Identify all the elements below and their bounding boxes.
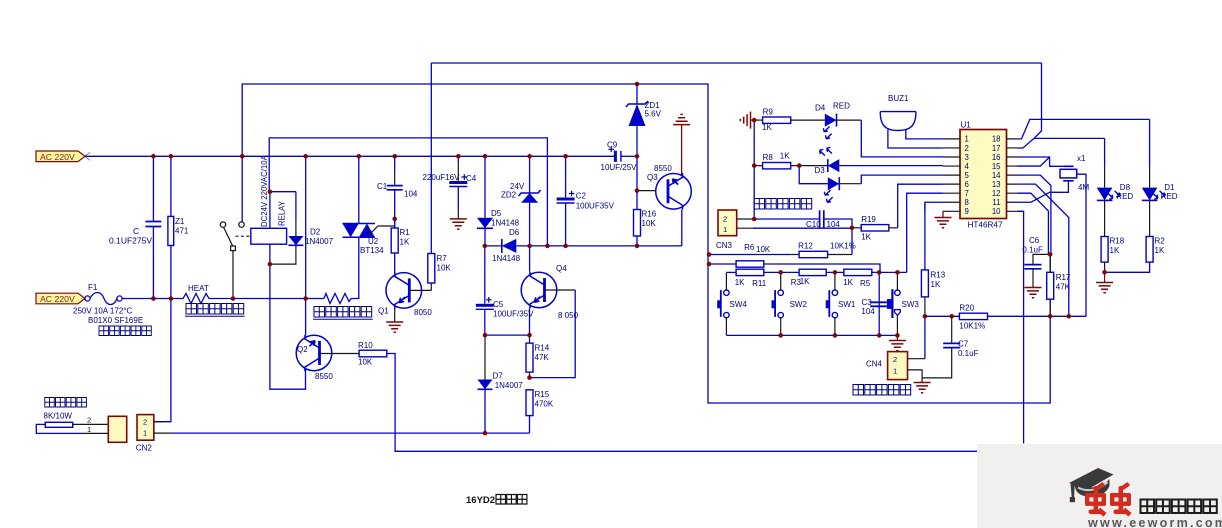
transistor Q2 8550 [296, 335, 332, 371]
svg-text:D1: D1 [1164, 183, 1175, 192]
svg-text:CN3: CN3 [716, 241, 733, 250]
wire heater to triac U2 [351, 237, 359, 298]
svg-text:C: C [133, 226, 139, 236]
svg-text:C7: C7 [958, 340, 969, 349]
svg-text:18: 18 [992, 135, 1001, 144]
svg-text:D8: D8 [1120, 183, 1131, 192]
svg-text:RED: RED [833, 102, 850, 111]
diode D6 1N4148 [502, 239, 517, 253]
wire U1 pin7 to rail C [907, 193, 943, 272]
svg-text:8: 8 [965, 198, 969, 207]
resistor R17 47K [1049, 254, 1051, 272]
watermark graduation cap [1069, 468, 1114, 502]
LED D3 (dual) upper [828, 159, 840, 172]
wire ZD1 node [636, 156, 638, 190]
svg-text:R9: R9 [763, 108, 774, 117]
resistor R6 10K [736, 261, 764, 267]
wire CN3 pin1 row [737, 227, 753, 229]
svg-text:D3: D3 [815, 166, 826, 175]
svg-text:CN4: CN4 [866, 360, 883, 369]
buzzer BUZ1 [880, 111, 916, 113]
svg-text:5: 5 [965, 171, 970, 180]
wire CN4 pin2 riser [908, 358, 925, 360]
svg-text:R19: R19 [861, 215, 876, 224]
svg-text:10K1%: 10K1% [959, 322, 985, 331]
wire top loop corner to pin18 net [1034, 63, 1042, 138]
net label AC 220V (bottom) [36, 293, 85, 304]
svg-text:RED: RED [1116, 192, 1133, 201]
resistor R16 10K [636, 191, 638, 210]
svg-text:Q3: Q3 [647, 173, 658, 182]
wire R20 row [925, 315, 960, 317]
svg-text:0.1uF: 0.1uF [958, 349, 979, 358]
power ground (inverted, Q3 emitter) [673, 114, 690, 124]
pin 1 / pin 18 stubs [943, 138, 1018, 140]
svg-text:RED: RED [1161, 192, 1178, 201]
svg-text:4M: 4M [1078, 183, 1089, 192]
svg-text:1K: 1K [800, 277, 810, 286]
LED D8 RED [1104, 138, 1106, 166]
svg-text:1K: 1K [400, 238, 410, 247]
svg-text:17: 17 [992, 144, 1001, 153]
svg-text:3: 3 [965, 153, 969, 162]
watermark 电子下载站 text [1141, 500, 1217, 514]
cement resistor 8K/10W [45, 398, 87, 408]
wire D3 lower to U1 pin5 [861, 175, 943, 184]
wire rail A (R12 row) [709, 254, 791, 256]
pin 2 / pin 17 stubs [943, 147, 1018, 149]
svg-text:R6: R6 [744, 243, 755, 252]
wire BUZ1 right pin to U1 pin1 [906, 130, 943, 139]
svg-text:250V 10A 172°C: 250V 10A 172°C [73, 307, 132, 316]
svg-text:R16: R16 [642, 210, 657, 219]
svg-text:1K: 1K [762, 123, 772, 132]
svg-text:SW1: SW1 [838, 300, 856, 309]
resistor R3 1K [799, 269, 826, 275]
crystal x1 4M [1063, 166, 1073, 181]
pin 7 / pin 12 stubs [943, 192, 1018, 194]
pin 3 / pin 16 stubs [943, 156, 1018, 158]
svg-text:R15: R15 [535, 390, 550, 399]
transistor Q1 8050 [386, 273, 422, 309]
svg-text:100UF35V: 100UF35V [576, 202, 615, 211]
wire rail B (R6 row) [709, 263, 736, 265]
svg-text:13: 13 [992, 180, 1001, 189]
svg-text:1K: 1K [735, 278, 745, 287]
svg-text:0.1UF275V: 0.1UF275V [109, 236, 152, 246]
ground (C4) [450, 219, 467, 229]
svg-text:ZD2: ZD2 [501, 191, 517, 200]
varistor Z1 471 [170, 156, 172, 216]
switch SW4 [725, 272, 727, 290]
resistor R1 1K [394, 219, 396, 228]
capacitor C2 100UF35V [565, 156, 567, 197]
wire U1 pin12 to C6 node [1018, 193, 1049, 254]
svg-text:C1: C1 [377, 182, 388, 191]
svg-text:2: 2 [143, 418, 147, 427]
pin 8 / pin 11 stubs [943, 201, 1018, 203]
svg-text:HT46R47: HT46R47 [968, 221, 1003, 230]
diode D2 1N4007 [295, 192, 297, 220]
resistor R9 1K [754, 119, 762, 121]
wire bottom AC rail [122, 298, 179, 300]
svg-text:10K: 10K [756, 245, 771, 254]
resistor R8 1K [754, 165, 762, 167]
svg-text:R13: R13 [931, 271, 946, 280]
resistor R2 1K [1149, 201, 1151, 237]
svg-text:2: 2 [893, 355, 897, 364]
fuse F1 [85, 296, 90, 301]
connector CN3 [718, 210, 737, 236]
wire main rail drop x305 [305, 156, 307, 298]
watermark background [977, 444, 1222, 528]
svg-text:8K/10W: 8K/10W [44, 412, 73, 421]
wire crystal case to R20 row [1077, 174, 1086, 316]
svg-text:5.6V: 5.6V [645, 110, 662, 119]
resistor R20 10K1% [959, 313, 987, 319]
wire dashed thermostat to relay [236, 235, 251, 237]
svg-text:x1: x1 [1077, 154, 1086, 163]
wire R19 riser to U1 pin6 [898, 184, 943, 228]
svg-text:C2: C2 [576, 192, 587, 201]
svg-text:10K: 10K [437, 264, 452, 273]
wire R12 riser [851, 228, 853, 255]
wire Q3 collector to DC rail [681, 210, 683, 246]
svg-text:AC 220V: AC 220V [40, 152, 75, 162]
svg-text:C6: C6 [1029, 236, 1040, 245]
svg-text:4: 4 [965, 162, 970, 171]
svg-text:16: 16 [992, 153, 1001, 162]
svg-text:DC24V 220VAC/10A: DC24V 220VAC/10A [260, 154, 269, 227]
wire CN3 pin2 row [737, 218, 755, 220]
svg-text:SW4: SW4 [730, 300, 748, 309]
wire switch bottom rail [726, 334, 897, 336]
capacitor C5 100UF/35V [484, 246, 486, 304]
label 锅底传感器 [754, 199, 812, 210]
wire U1 pin13 to R20 junction [1018, 184, 1069, 316]
ground (Q1 emitter) [394, 308, 396, 322]
wire U1 pin15 to crystal [1018, 157, 1050, 166]
svg-text:2: 2 [87, 416, 91, 425]
wire DC rail y246 [485, 245, 502, 247]
svg-text:0.1uF: 0.1uF [1022, 246, 1043, 255]
svg-text:471: 471 [175, 227, 189, 236]
svg-text:U1: U1 [961, 121, 972, 130]
svg-text:8550: 8550 [315, 372, 333, 381]
resistor R7 10K [428, 254, 435, 284]
svg-text:1N4148: 1N4148 [492, 254, 521, 263]
svg-text:F1: F1 [88, 283, 98, 292]
capacitor C 0.1UF275V [152, 156, 154, 221]
svg-text:1K: 1K [1110, 246, 1120, 255]
capacitor C4 220uF16V [457, 156, 459, 162]
svg-text:Q2: Q2 [297, 345, 308, 354]
wire U1 pin8 to R13 [925, 202, 943, 211]
resistor R19 1K [852, 227, 861, 229]
svg-text:Q1: Q1 [378, 307, 389, 316]
svg-text:Z1: Z1 [175, 217, 185, 226]
resistor R18 1K [1104, 201, 1106, 237]
LED D4 RED [791, 119, 825, 121]
svg-text:BT134: BT134 [360, 246, 384, 255]
svg-text:BUZ1: BUZ1 [888, 94, 909, 103]
pin 6 / pin 13 stubs [943, 183, 1018, 185]
svg-text:47K: 47K [1056, 283, 1071, 292]
capacitor C9 10UF/25V [614, 151, 617, 162]
svg-text:12: 12 [992, 189, 1001, 198]
svg-text:R12: R12 [798, 242, 813, 251]
wire Z1 column down to CN2 pin2 [154, 299, 171, 422]
svg-text:1: 1 [87, 425, 91, 434]
wire bottom rail to pot-body heater [211, 298, 324, 300]
capacitor C7 0.1uF [951, 316, 953, 343]
svg-text:2: 2 [965, 144, 969, 153]
svg-text:10K: 10K [358, 358, 373, 367]
zener ZD1 5.6V [636, 84, 638, 104]
svg-text:104: 104 [861, 307, 875, 316]
svg-text:6: 6 [965, 180, 969, 189]
wire D3 upper to U1 pin4 [839, 165, 943, 167]
LED D3 lower [799, 166, 828, 184]
wire C10 to junction [824, 219, 852, 228]
svg-text:1: 1 [723, 225, 727, 234]
svg-text:R20: R20 [959, 304, 974, 313]
wire BUZ1 left pin to U1 pin2 [888, 130, 943, 149]
svg-text:1K: 1K [861, 233, 871, 242]
watermark 虫虫 red characters [1085, 482, 1107, 517]
wire top node line y84 [242, 84, 1050, 403]
junction dots [151, 154, 156, 159]
wire R9 column [753, 120, 755, 219]
pin 4 / pin 15 stubs [943, 165, 1018, 167]
wire R2 bottom to ground node [1105, 262, 1150, 272]
svg-text:8550: 8550 [654, 164, 672, 173]
resistor R11 1K [736, 269, 764, 275]
svg-text:R8: R8 [763, 153, 774, 162]
svg-text:D6: D6 [509, 228, 520, 237]
svg-text:11: 11 [992, 198, 1000, 207]
svg-text:10K: 10K [642, 219, 657, 228]
svg-text:1N4007: 1N4007 [495, 381, 524, 390]
svg-text:B01X0 SF169E: B01X0 SF169E [88, 316, 143, 325]
wire U1 pin17 to D8 [1018, 138, 1105, 148]
wire inner line y138 [269, 138, 547, 246]
svg-text:R11: R11 [752, 279, 767, 288]
wire CN4 pin1 to ground [908, 370, 923, 383]
svg-text:1: 1 [965, 135, 969, 144]
svg-text:C9: C9 [607, 141, 618, 150]
svg-text:15: 15 [992, 162, 1001, 171]
svg-text:8050: 8050 [414, 308, 432, 317]
svg-text:HEAT: HEAT [188, 284, 209, 293]
svg-text:R2: R2 [1155, 237, 1166, 246]
transistor Q3 8550 [656, 174, 692, 210]
wire C5 to Q4 emitter [485, 334, 530, 336]
svg-text:470K: 470K [535, 400, 554, 409]
LED D1 RED [1149, 119, 1151, 166]
switch SW1 [834, 272, 836, 290]
switch SW3 [896, 272, 898, 290]
connector CN4 [888, 352, 908, 380]
svg-text:1K: 1K [780, 152, 790, 161]
connector CN2 [137, 415, 154, 441]
capacitor C1 104 [394, 156, 396, 170]
ground (SW3 bottom) [896, 335, 898, 340]
zener ZD2 24V [529, 156, 531, 193]
pin 5 / pin 14 stubs [943, 174, 1018, 176]
diode D5 1N4148 [484, 156, 486, 218]
IC U1 HT46R47 [960, 130, 1007, 219]
svg-text:SW2: SW2 [790, 300, 808, 309]
resistor R12 10K1% [799, 251, 828, 257]
svg-text:7: 7 [965, 189, 969, 198]
svg-text:1N4148: 1N4148 [491, 219, 520, 228]
resistor R15 470K [526, 390, 533, 416]
svg-text:220uF16V: 220uF16V [423, 173, 461, 182]
svg-text:R14: R14 [535, 344, 550, 353]
svg-text:C4: C4 [466, 174, 477, 183]
label 底盘加热丝 [186, 304, 244, 315]
wire relay bottom to Q2 collector [270, 264, 306, 389]
svg-text:SW3: SW3 [902, 300, 920, 309]
svg-text:1K: 1K [843, 278, 853, 287]
svg-text:www.eeworm.com: www.eeworm.com [1087, 516, 1222, 528]
triac U2 BT134 [358, 156, 360, 223]
svg-text:C3: C3 [862, 298, 873, 307]
ground (C6) [1025, 288, 1042, 298]
wire U1 pin14 to C6 node [1018, 175, 1051, 254]
wire crystal bottom to U1 pin11 [1018, 181, 1069, 202]
svg-text:47K: 47K [535, 353, 550, 362]
pin 9 / pin 10 stubs [943, 210, 1018, 212]
svg-text:CN2: CN2 [136, 444, 153, 453]
svg-text:16YD2: 16YD2 [466, 495, 495, 506]
transistor Q4 8050 [521, 272, 557, 308]
resistor R10 10K [359, 350, 387, 357]
heater HEAT zigzag (bottom plate heater) [179, 294, 211, 304]
svg-text:14: 14 [992, 171, 1001, 180]
svg-text:D4: D4 [815, 104, 826, 113]
svg-text:RELAY: RELAY [278, 200, 287, 226]
svg-text:2: 2 [723, 215, 727, 224]
svg-text:D2: D2 [310, 228, 321, 237]
wire R10 to bottom-right net [387, 354, 977, 452]
ground (R18/R2) [1096, 283, 1113, 293]
heater 锅身加热丝 zigzag [324, 294, 351, 304]
svg-text:10: 10 [992, 207, 1001, 216]
svg-text:U2: U2 [368, 237, 379, 246]
svg-text:1K: 1K [931, 280, 941, 289]
capacitor C10 104 [820, 210, 824, 228]
svg-text:1K: 1K [1155, 246, 1165, 255]
power ground (sideways, R9 feed) [740, 112, 750, 129]
svg-text:C5: C5 [493, 300, 504, 309]
capacitor C6 0.1uF [1033, 254, 1050, 264]
wire rail C (switch top rail) [726, 271, 736, 273]
svg-text:R7: R7 [437, 254, 448, 263]
svg-text:8 050: 8 050 [558, 311, 579, 320]
svg-text:104: 104 [404, 190, 418, 199]
resistor R5 1K [844, 269, 872, 275]
wire U1 pin16 to crystal [1018, 157, 1064, 166]
connector (cement resistor mate) [108, 416, 126, 442]
svg-text:10UF/25V: 10UF/25V [601, 163, 638, 172]
svg-text:1: 1 [893, 367, 897, 376]
svg-text:D7: D7 [493, 372, 504, 381]
net label AC 220V (top) [36, 151, 85, 162]
wire U1 pin10 down [1018, 211, 1024, 443]
ground (U1 pin9) [942, 211, 944, 217]
wire relay coil bottom [269, 244, 271, 264]
wire U1 pin18 to D1 net [1018, 119, 1150, 138]
switch SW2 [780, 272, 782, 290]
svg-text:R1: R1 [400, 228, 411, 237]
wire relay coil top [269, 192, 271, 229]
svg-text:AC 220V: AC 220V [40, 294, 75, 304]
wire top AC rail [85, 155, 614, 157]
svg-text:100UF/35V: 100UF/35V [493, 310, 534, 319]
wire top loop y63 and R7 column [431, 62, 1041, 64]
svg-text:D5: D5 [491, 209, 502, 218]
label 锅盖传感器 [853, 385, 911, 396]
svg-text:1N4007: 1N4007 [305, 237, 334, 246]
svg-text:R18: R18 [1110, 237, 1125, 246]
resistor R14 47K [529, 335, 531, 343]
svg-text:Q4: Q4 [556, 264, 567, 273]
relay K1 [251, 228, 287, 244]
svg-text:R10: R10 [358, 341, 373, 350]
wire D4 to U1 pin3 [861, 120, 943, 157]
resistor R13 1K [924, 203, 926, 270]
svg-text:R5: R5 [860, 279, 871, 288]
svg-text:1: 1 [143, 429, 147, 438]
label 安装于锅底 [99, 326, 151, 336]
thermostat switch [241, 156, 243, 222]
svg-text:R17: R17 [1056, 273, 1071, 282]
capacitor C3 104 [878, 272, 880, 335]
diode D7 1N4007 [484, 335, 486, 379]
wire CN2 pin1 long net [154, 432, 172, 434]
svg-text:9: 9 [965, 207, 969, 216]
